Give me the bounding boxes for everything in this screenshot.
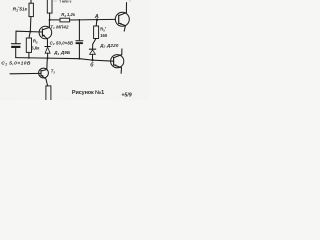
svg-text:Д1 Д9Б: Д1 Д9Б (53, 50, 71, 56)
svg-text:Т1 МП42: Т1 МП42 (50, 24, 69, 30)
wire T4 collector upper stub (121, 49, 123, 55)
resistor R4 (60, 18, 70, 22)
svg-text:5,6к: 5,6к (31, 45, 40, 50)
svg-text:+5/9: +5/9 (121, 93, 131, 99)
svg-text:R4 1,2к: R4 1,2к (61, 12, 76, 18)
svg-text:т мпн э: т мпн э (59, 0, 71, 4)
svg-text:А: А (94, 14, 99, 20)
svg-text:R2: R2 (33, 39, 38, 45)
wire C2 drop (78, 20, 80, 40)
faint speck top right (129, 0, 131, 1)
resistor R3 (47, 0, 52, 13)
wire T2 collector from rail (46, 58, 49, 69)
transistor T2 (39, 68, 49, 78)
wire A to R5 (95, 20, 98, 26)
wire C1 to rail (15, 48, 17, 58)
wire R3 bottom (49, 13, 51, 20)
transistor T3 (115, 12, 129, 26)
svg-text:Т2: Т2 (51, 69, 56, 75)
resistor R2 (26, 38, 31, 52)
junction C2 (79, 19, 81, 21)
diode D1 (45, 46, 50, 48)
svg-text:С2 50,0×8В: С2 50,0×8В (50, 40, 74, 46)
transistor T4 (111, 55, 124, 68)
wire T2 base (10, 72, 41, 74)
node A (96, 19, 98, 21)
wire base line to T1 (16, 30, 42, 33)
wire R1 top lead (30, 0, 32, 3)
wire C1 drop (15, 31, 17, 43)
wire C2 to rail (78, 44, 80, 59)
node junction R1/base (29, 31, 31, 33)
junction R3/R4/T1 (49, 19, 51, 21)
wire rail node line (16, 58, 114, 62)
svg-text:160: 160 (100, 33, 108, 38)
junction C2 rail (79, 58, 81, 60)
capacitor C1 (12, 43, 21, 45)
wire R5 to D2 (93, 39, 96, 49)
capacitor C2 (76, 40, 83, 42)
wire R1 bottom to base node (29, 17, 32, 32)
faint speck near R3 top (53, 0, 56, 3)
junction R2 rail (28, 57, 30, 59)
resistor R6 (46, 86, 51, 101)
wire junction to R4 (50, 19, 60, 21)
node b junction (91, 59, 93, 61)
wire R2 to rail (28, 52, 30, 57)
T2 emitter (41, 75, 46, 79)
transistor T1 (39, 26, 52, 39)
junction D1 rail (47, 57, 49, 59)
svg-text:Рисунок №1: Рисунок №1 (72, 90, 104, 96)
svg-text:Д2 Д220: Д2 Д220 (99, 43, 119, 49)
wire R4 to T3 base (70, 18, 116, 21)
wire R2 drop (29, 32, 30, 38)
resistor R1 (29, 3, 33, 16)
diode D2 (89, 48, 95, 50)
resistor R5 (94, 26, 99, 39)
